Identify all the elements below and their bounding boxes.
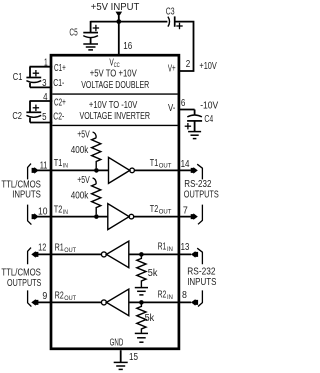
pin 4 wire (30, 100, 53, 102)
svg-text:5: 5 (42, 112, 47, 123)
svg-text:1: 1 (44, 57, 48, 68)
arrow pin 8 (input, left) (191, 299, 198, 306)
svg-text:C5: C5 (69, 28, 78, 39)
connector brace RS-232 inputs (top) (197, 248, 202, 264)
svg-text:IN: IN (63, 163, 68, 170)
svg-text:VOLTAGE INVERTER: VOLTAGE INVERTER (80, 111, 151, 122)
node R2 junction (139, 300, 144, 305)
pin 15 wire (120, 350, 122, 362)
svg-text:T1: T1 (150, 158, 159, 169)
wire T1OUT (pin 14) (134, 169, 191, 171)
IC box U1 (51, 55, 179, 349)
pin 6 wire (178, 109, 194, 111)
ground (R2 5k, GND) (135, 333, 148, 342)
svg-text:R1: R1 (158, 241, 167, 252)
divider voltage doubler section (52, 93, 177, 95)
resistor 5k (R2) (137, 304, 146, 333)
+5V hook T1 (93, 132, 97, 138)
arrow pin 7 (output, right) (191, 213, 198, 220)
connector brace RS-232 outputs (bottom) (198, 205, 202, 225)
capacitor C2 (26, 101, 41, 123)
node T1 junction (94, 168, 99, 173)
receiver R1 (101, 241, 128, 268)
svg-text:10: 10 (38, 207, 48, 218)
svg-text:C4: C4 (204, 114, 213, 125)
node T2 junction (94, 214, 99, 219)
svg-text:OUT: OUT (64, 295, 76, 302)
divider voltage inverter section (52, 124, 177, 126)
wire R2OUT (pin 9) (37, 301, 101, 303)
node R1 junction (139, 252, 144, 257)
svg-text:7: 7 (183, 205, 188, 216)
+5V hook T2 (93, 178, 97, 184)
capacitor C3 (168, 16, 183, 29)
svg-text:5k: 5k (145, 313, 156, 324)
svg-text:OUT: OUT (159, 162, 172, 169)
svg-text:400k: 400k (71, 145, 89, 156)
connector brace TTL inputs (bottom) (28, 205, 32, 225)
svg-text:6: 6 (181, 98, 186, 109)
svg-text:C1+: C1+ (54, 63, 66, 74)
svg-text:T1: T1 (54, 158, 63, 169)
receiver R2 (101, 289, 128, 316)
svg-text:C1: C1 (13, 72, 23, 83)
arrow pin 13 (input, left) (191, 251, 198, 258)
svg-text:IN: IN (63, 209, 68, 216)
capacitor C4 (185, 110, 202, 132)
wire R1OUT (pin 12) (37, 253, 101, 255)
svg-text:2: 2 (186, 59, 191, 70)
svg-text:T2: T2 (150, 204, 159, 215)
wire T1IN (pin 11) (38, 169, 109, 171)
node +5V rail junction (116, 19, 121, 24)
svg-text:C2-: C2- (53, 112, 64, 123)
svg-text:VOLTAGE DOUBLER: VOLTAGE DOUBLER (81, 80, 149, 91)
svg-text:INPUTS: INPUTS (12, 189, 41, 200)
+5V INPUT terminal (116, 12, 123, 57)
ground (C4) (188, 132, 201, 139)
wire +5V rail (91, 21, 168, 23)
svg-text:9: 9 (42, 291, 47, 302)
pin 3 wire (30, 86, 52, 88)
wire C3 to V+ pin 2 (175, 22, 194, 71)
svg-text:+5V: +5V (77, 175, 90, 186)
svg-text:C3: C3 (166, 6, 175, 17)
svg-text:12: 12 (38, 242, 47, 253)
svg-text:4: 4 (43, 92, 48, 103)
svg-text:R2: R2 (55, 290, 65, 301)
svg-text:T2: T2 (54, 204, 63, 215)
svg-text:RS-232: RS-232 (184, 179, 211, 190)
svg-text:C1-: C1- (53, 78, 64, 89)
connector brace TTL inputs (top) (28, 164, 31, 180)
svg-text:GND: GND (110, 338, 124, 349)
driver T2 (108, 204, 134, 230)
resistor 400k (T1) (92, 138, 101, 168)
svg-text:IN: IN (167, 246, 173, 253)
svg-text:OUT: OUT (159, 209, 172, 216)
svg-text:5k: 5k (148, 268, 159, 279)
wire R2IN (pin 8) (129, 301, 191, 303)
resistor 5k (R1) (137, 256, 146, 287)
wire T2OUT (pin 7) (134, 216, 191, 218)
svg-text:+10V: +10V (199, 61, 217, 72)
wire R1IN (pin 13) (129, 253, 191, 255)
capacitor C1 (26, 67, 41, 88)
svg-text:400k: 400k (71, 191, 89, 202)
resistor 400k (T2) (92, 184, 101, 214)
arrow pin 12 (output, left) (31, 251, 38, 258)
connector brace TTL outputs (top) (28, 248, 31, 265)
svg-text:8: 8 (182, 290, 187, 301)
connector brace TTL outputs (bottom) (28, 290, 32, 306)
svg-text:INPUTS: INPUTS (187, 277, 217, 288)
connector brace RS-232 inputs (bottom) (198, 290, 202, 306)
svg-text:+5V: +5V (77, 130, 90, 141)
svg-text:C2+: C2+ (54, 98, 66, 109)
svg-text:3: 3 (42, 78, 47, 89)
svg-text:C2: C2 (12, 111, 22, 122)
svg-text:V+: V+ (168, 63, 176, 74)
pin 1 wire (30, 66, 53, 68)
svg-text:OUTPUTS: OUTPUTS (184, 189, 219, 200)
svg-text:R1: R1 (55, 242, 65, 253)
arrow pin 11 (input, right) (32, 167, 39, 174)
capacitor C5 (83, 21, 99, 44)
arrow pin 9 (output, left) (31, 299, 38, 306)
svg-text:OUT: OUT (64, 247, 76, 254)
svg-text:V-: V- (168, 103, 175, 114)
svg-text:-10V: -10V (200, 100, 218, 111)
ground (C5) (83, 44, 98, 50)
svg-text:14: 14 (181, 159, 190, 170)
svg-text:16: 16 (123, 41, 132, 52)
svg-text:13: 13 (181, 242, 190, 253)
ground (R1 5k) (135, 288, 148, 295)
svg-text:R2: R2 (158, 289, 167, 300)
svg-text:+10V TO -10V: +10V TO -10V (89, 100, 138, 111)
driver T1 (109, 157, 135, 183)
svg-text:IN: IN (167, 294, 173, 301)
arrow pin 10 (input, right) (32, 213, 39, 220)
svg-text:15: 15 (129, 352, 138, 363)
pin 5 wire (30, 122, 52, 124)
arrow pin 14 (output, right) (191, 167, 198, 174)
svg-text:+5V TO +10V: +5V TO +10V (90, 69, 137, 80)
ground (pin 15) (114, 362, 128, 369)
svg-text:11: 11 (40, 160, 48, 171)
svg-text:OUTPUTS: OUTPUTS (7, 278, 42, 289)
connector brace RS-232 outputs (top) (197, 164, 202, 179)
svg-text:+5V INPUT: +5V INPUT (91, 2, 140, 13)
wire T2IN (pin 10) (38, 216, 108, 218)
